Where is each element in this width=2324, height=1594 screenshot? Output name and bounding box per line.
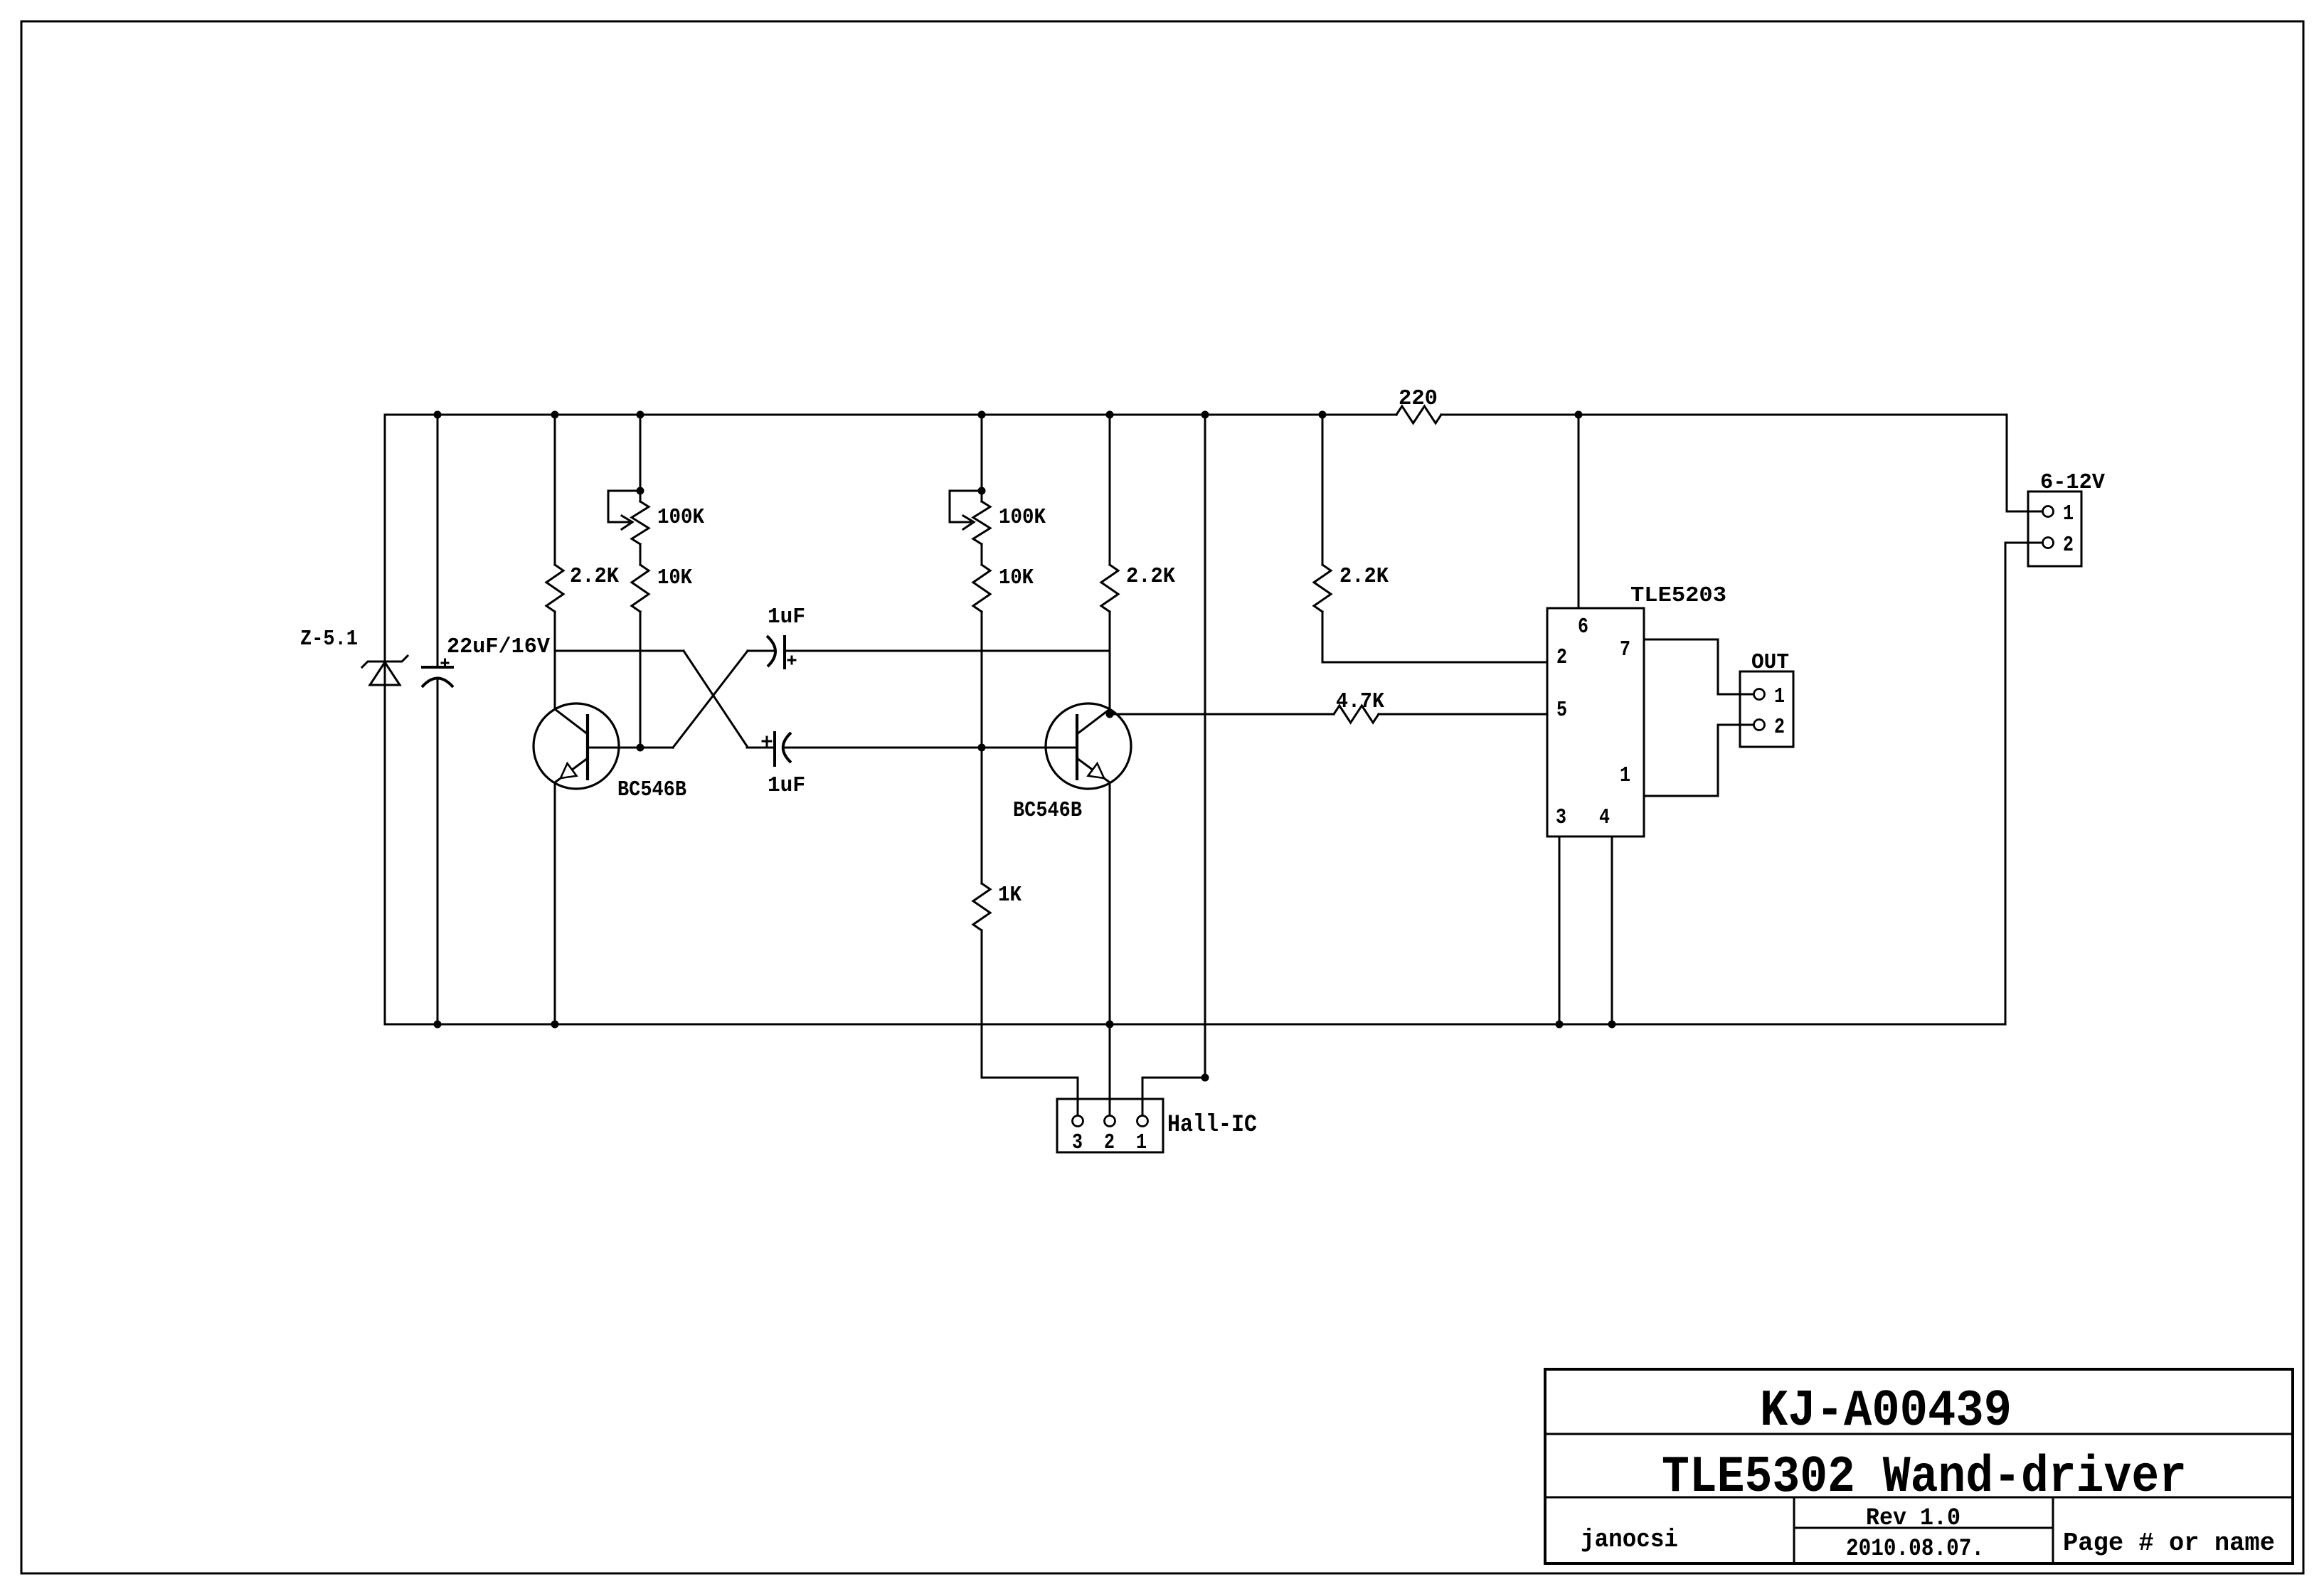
potentiometer 100K (left) bbox=[632, 501, 649, 544]
connector Hall-IC bbox=[1057, 1099, 1163, 1152]
IC U1 TLE5203 bbox=[1547, 608, 1644, 836]
svg-text:Rev 1.0: Rev 1.0 bbox=[1866, 1505, 1960, 1532]
wire Hall pin1 bbox=[1142, 1078, 1205, 1115]
svg-text:Page # or name: Page # or name bbox=[2063, 1529, 2275, 1558]
wire to connector 6-12V pin 1 bbox=[2007, 415, 2042, 511]
zener diode Z-5.1 bbox=[362, 656, 408, 667]
connector OUT bbox=[1740, 671, 1793, 747]
wire Q2 base branch from bus bbox=[981, 415, 983, 501]
svg-text:BC546B: BC546B bbox=[1013, 798, 1082, 823]
svg-text:2.2K: 2.2K bbox=[1126, 564, 1175, 589]
title block bbox=[1545, 1369, 2293, 1563]
wire bottom bus to Hall pin 2 bbox=[1109, 1024, 1111, 1115]
wire diagonal Q1 collector down to lower 1uF cap bbox=[684, 651, 747, 746]
junction top bus x=1859 bbox=[1319, 411, 1327, 419]
svg-text:TLE5203: TLE5203 bbox=[1630, 583, 1726, 608]
wire 4.7K to TLE pin 5 bbox=[1379, 713, 1547, 716]
junction bottom bus x=2192 bbox=[1556, 1021, 1564, 1029]
wire from connector 6-12V pin 2 to bottom bus bbox=[2005, 543, 2042, 1024]
svg-text:2: 2 bbox=[1556, 645, 1567, 670]
svg-text:Z-5.1: Z-5.1 bbox=[300, 627, 358, 652]
svg-text:6-12V: 6-12V bbox=[2040, 470, 2105, 495]
wire Q1 emitter to bottom bus bbox=[554, 782, 556, 1024]
transistor Q1 BC546B bbox=[534, 703, 619, 789]
wire TLE pin 1 to OUT pin 2 bbox=[1644, 725, 1753, 796]
svg-text:KJ-A00439: KJ-A00439 bbox=[1760, 1382, 2012, 1440]
junction bottom bus x=1560 bbox=[1106, 1021, 1114, 1029]
wire Q2 collector to 4.7K bbox=[1110, 713, 1334, 716]
svg-text:22uF/16V: 22uF/16V bbox=[447, 634, 550, 659]
resistor 10K (left) bbox=[632, 565, 649, 612]
wire zener branch bbox=[384, 415, 386, 1024]
node Hall pin1 junction bbox=[1201, 1074, 1209, 1082]
wire 10K to lower cap node bbox=[981, 612, 983, 748]
transistor Q2 BC546B bbox=[1046, 703, 1131, 789]
svg-text:10K: 10K bbox=[999, 565, 1034, 590]
junction top bus x=1380 bbox=[978, 411, 986, 419]
svg-text:10K: 10K bbox=[657, 565, 692, 590]
junction top bus x=1694 bbox=[1201, 411, 1209, 419]
capacitor 1uF (upper) bbox=[767, 636, 775, 666]
junction top bus x=1560 bbox=[1106, 411, 1114, 419]
wire TLE pin 6 from bus bbox=[1578, 415, 1580, 608]
svg-text:4: 4 bbox=[1599, 805, 1610, 830]
svg-text:4.7K: 4.7K bbox=[1336, 689, 1384, 714]
wire Hall Vcc branch bbox=[1204, 415, 1206, 1078]
svg-text:1: 1 bbox=[1136, 1130, 1147, 1155]
svg-text:TLE5302 Wand-driver: TLE5302 Wand-driver bbox=[1662, 1448, 2187, 1507]
svg-text:1K: 1K bbox=[998, 883, 1022, 908]
svg-text:5: 5 bbox=[1556, 698, 1567, 723]
wire Q1 collector branch from bus bbox=[554, 415, 556, 565]
resistor 220 bbox=[1396, 406, 1441, 423]
resistor 10K (right) bbox=[973, 565, 990, 612]
resistor 4.7K bbox=[1334, 706, 1379, 723]
wire 2.2K to Q2 collector bbox=[1109, 612, 1111, 714]
junction bottom bus x=615 bbox=[434, 1021, 442, 1029]
svg-text:3: 3 bbox=[1072, 1130, 1083, 1155]
capacitor 1uF (lower) bbox=[773, 731, 776, 767]
wire TLE pin 7 to OUT pin 1 bbox=[1644, 639, 1753, 694]
wire 22uF cap branch lower bbox=[437, 678, 439, 1024]
svg-text:Hall-IC: Hall-IC bbox=[1167, 1112, 1257, 1139]
junction top bus x=780 bbox=[551, 411, 559, 419]
wire Q1 base to node bbox=[588, 747, 673, 749]
junction bottom bus x=2266 bbox=[1608, 1021, 1616, 1029]
wire top bus right bbox=[1441, 414, 2007, 416]
resistor 2.2K (Q1 collector) bbox=[546, 565, 563, 612]
capacitor 22uF/16V bbox=[421, 666, 454, 669]
wire pot to 10K (right) bbox=[981, 544, 983, 565]
svg-text:janocsi: janocsi bbox=[1581, 1525, 1678, 1554]
junction top bus x=615 bbox=[434, 411, 442, 419]
svg-text:1: 1 bbox=[1620, 763, 1630, 788]
resistor 2.2K (Q2 collector) bbox=[1101, 565, 1118, 612]
resistor 1K bbox=[973, 883, 990, 930]
wire 10K to Q1 base node bbox=[640, 612, 642, 748]
wire Q2 collector branch from bus bbox=[1109, 415, 1111, 565]
wire 1K to Hall pin 3 bbox=[982, 930, 1078, 1115]
wire node to 1K bbox=[981, 748, 983, 883]
wire top bus left bbox=[385, 414, 1396, 416]
svg-text:100K: 100K bbox=[999, 505, 1046, 530]
node Q1 base bbox=[637, 744, 644, 752]
junction top bus x=900 bbox=[637, 411, 644, 419]
wire lower cap to Q2 base bbox=[785, 747, 1077, 749]
svg-text:1uF: 1uF bbox=[768, 773, 805, 798]
wire TLE pin 4 to bottom bus bbox=[1611, 836, 1613, 1024]
node 10K / 1K / Q2 base bbox=[978, 744, 986, 752]
svg-text:OUT: OUT bbox=[1751, 650, 1789, 675]
svg-text:6: 6 bbox=[1578, 615, 1588, 639]
svg-text:1uF: 1uF bbox=[768, 605, 805, 629]
wire Q1 base branch from bus bbox=[640, 415, 642, 501]
svg-text:3: 3 bbox=[1556, 805, 1566, 830]
wire pot to 10K bbox=[640, 544, 642, 565]
svg-text:100K: 100K bbox=[657, 505, 704, 530]
connector 6-12V bbox=[2028, 492, 2081, 566]
resistor 2.2K (TLE pin2) bbox=[1314, 565, 1331, 612]
svg-text:1: 1 bbox=[1774, 684, 1785, 709]
wire bottom bus bbox=[385, 1024, 2005, 1026]
junction bottom bus x=780 bbox=[551, 1021, 559, 1029]
wire upper cap to Q2 collector branch bbox=[785, 650, 1110, 652]
svg-text:2.2K: 2.2K bbox=[1339, 564, 1389, 589]
junction top bus x=2219 bbox=[1575, 411, 1583, 419]
wire 2.2K to TLE pin 2 bbox=[1322, 612, 1547, 662]
wire 2.2K TLE branch from bus bbox=[1322, 415, 1324, 565]
node Q2 collector bbox=[1106, 711, 1114, 718]
svg-text:220: 220 bbox=[1399, 386, 1438, 411]
svg-text:2010.08.07.: 2010.08.07. bbox=[1846, 1536, 1984, 1563]
potentiometer 100K (right) bbox=[973, 501, 990, 544]
svg-text:2.2K: 2.2K bbox=[570, 564, 619, 589]
svg-text:BC546B: BC546B bbox=[617, 777, 686, 802]
svg-text:2: 2 bbox=[2063, 533, 2074, 558]
wire TLE pin 3 to bottom bus bbox=[1559, 836, 1561, 1024]
svg-text:7: 7 bbox=[1620, 637, 1630, 662]
wire Q2 emitter to bottom bus bbox=[1109, 782, 1111, 1024]
wire 2.2K to Q1 collector bbox=[554, 612, 556, 709]
svg-text:1: 1 bbox=[2063, 501, 2074, 526]
svg-text:2: 2 bbox=[1104, 1130, 1115, 1155]
wire Q1 collector rail bbox=[555, 650, 684, 652]
wire diagonal Q1 base up to upper 1uF cap bbox=[673, 651, 748, 748]
wire 22uF cap branch upper bbox=[437, 415, 439, 667]
svg-text:2: 2 bbox=[1774, 715, 1785, 740]
